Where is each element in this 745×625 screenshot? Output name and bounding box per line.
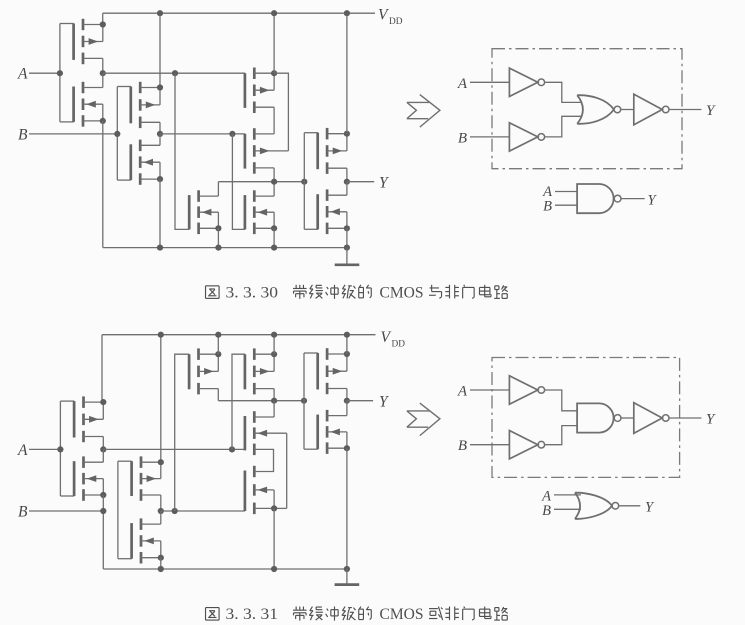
wire Y out of box: [669, 109, 701, 111]
gate bracket VT1'/VT2' (input A inverter) fig31: [60, 401, 74, 496]
transistor VT4 (NMOS, B inverter): [131, 140, 160, 185]
wire VT2 source to ground rail: [102, 121, 104, 248]
wire VT7' substrate down: [286, 433, 288, 508]
equivalence arrow fig30: [407, 95, 440, 128]
node inverter-A output fig31: [100, 446, 106, 452]
wire VT9' drain down: [346, 389, 348, 401]
node output inverter gate node fig31: [301, 398, 307, 404]
wire VT5' source to VDD: [217, 335, 219, 355]
equivalence arrow fig31: [407, 403, 440, 436]
svg-text:B: B: [18, 126, 28, 143]
caption char 非: [445, 285, 459, 299]
wire VT5' drain down: [217, 389, 219, 401]
wire NOR to Y: [619, 505, 641, 507]
svg-text:DD: DD: [389, 17, 403, 27]
wire Y output: [347, 181, 374, 183]
node VT4 source: [157, 176, 163, 182]
svg-text:A: A: [17, 66, 28, 83]
transistor VT9' (PMOS, output inverter) fig31: [318, 348, 347, 394]
node gnd tap 2 fig31: [271, 566, 277, 572]
VDD rail (fig.3.3.30): [103, 12, 375, 14]
caption char 缓: [309, 607, 323, 621]
wire VT3' source to VDD: [160, 335, 162, 463]
node VDD tap 3: [344, 10, 350, 16]
wire input A fig31: [29, 448, 60, 450]
wire ground rail fig31: [103, 568, 347, 570]
wire G1 to G3: [545, 82, 582, 102]
wire B-bar down to VT8 gate: [232, 134, 245, 230]
node VT5' source: [215, 351, 221, 357]
ground fig31: [335, 569, 360, 585]
wire G2 to G3: [545, 116, 582, 137]
caption char 冲: [326, 285, 339, 299]
svg-text:Y: Y: [379, 174, 389, 191]
node VT10 source: [344, 225, 350, 231]
wire B to NOR: [554, 508, 581, 510]
wire B into box fig31: [470, 444, 509, 446]
wire VT7 source to ground: [217, 228, 219, 247]
wire NAND output row fig31: [218, 400, 304, 402]
transistor VT4' (NMOS, B inverter) fig31: [132, 518, 161, 563]
gate bracket VT3'/VT4' (input B inverter) fig31: [118, 461, 132, 559]
wire VT1' drain down: [102, 437, 104, 450]
node NAND output node fig31: [271, 398, 277, 404]
transistor VT3' (PMOS, B inverter) fig31: [132, 456, 161, 500]
wire A-bar row fig31: [103, 448, 245, 450]
node VT5 source: [271, 70, 277, 76]
caption char 级: [342, 607, 356, 621]
svg-text:A: A: [17, 442, 28, 459]
wire VT3' drain down: [160, 495, 162, 511]
wire B-bar up to VT5' gate: [175, 354, 190, 511]
node VDD tap 1: [157, 10, 163, 16]
wire A-bar down to VT7 gate: [175, 73, 189, 229]
wire VT9 drain down: [346, 168, 348, 182]
node VT1' source/VDD: [100, 399, 106, 405]
node gnd tap 3 fig31: [344, 566, 350, 572]
inverter G1': [509, 376, 544, 404]
node VT3' source: [158, 459, 164, 465]
caption char 级: [342, 285, 356, 299]
transistor VT2' (NMOS, A inverter) fig31: [74, 456, 103, 500]
wire VT8' substrate down: [273, 490, 275, 508]
transistor VT1' (PMOS, A inverter) fig31: [74, 396, 103, 442]
wire Y output fig31: [347, 400, 373, 402]
node inverter-B output: [157, 131, 163, 137]
svg-text:3. 3. 30: 3. 3. 30: [226, 285, 279, 302]
caption char 冲: [326, 607, 339, 621]
wire VT7'-VT8' series link: [273, 449, 275, 471]
transistor VT7 (NMOS parallel, NOR): [189, 190, 218, 234]
caption char 门: [463, 607, 474, 621]
transistor VT10 (NMOS, output inverter): [318, 189, 347, 234]
node VDD tap 2 fig31: [215, 332, 221, 338]
node B-bar branch: [229, 131, 235, 137]
svg-text:B: B: [18, 503, 28, 520]
node Y output node fig31: [344, 398, 350, 404]
node VDD tap 2: [271, 10, 277, 16]
caption char 路: [494, 607, 508, 620]
node VT1 source/VDD: [100, 21, 106, 27]
wire VT5-VT6 series link: [273, 107, 275, 134]
wire VT3 drain down: [159, 122, 161, 134]
svg-text:V: V: [381, 329, 392, 346]
node VDD tap 4 fig31: [344, 332, 350, 338]
wire NAND to Y: [621, 198, 645, 200]
dash-dot enclosure fig30: [492, 49, 682, 169]
wire VT7' drain up: [273, 401, 275, 417]
caption char 电: [479, 285, 490, 297]
node A-bar branch: [172, 70, 178, 76]
wire ground rail fig30: [103, 247, 347, 249]
transistor VT7' (NMOS series, NAND) fig31: [245, 411, 287, 455]
node B-bar branch fig31: [172, 508, 178, 514]
node VT4' source: [158, 555, 164, 561]
wire substrate tie VT6: [274, 73, 288, 151]
svg-text:B: B: [458, 438, 467, 454]
wire B into box: [470, 136, 509, 138]
wire VT6 drain down: [273, 168, 275, 182]
wire VT8' source to ground: [273, 508, 275, 569]
wire input B: [29, 133, 117, 135]
node VT9' source: [344, 351, 350, 357]
svg-text:CMOS: CMOS: [380, 606, 424, 623]
wire input A: [29, 72, 60, 74]
node gnd tap 3: [271, 245, 277, 251]
transistor VT5 (PMOS series, NOR): [245, 68, 274, 114]
svg-text:B: B: [542, 503, 551, 519]
caption char 带: [293, 607, 307, 621]
wire input B fig31: [29, 510, 103, 512]
transistor VT1 (PMOS, A inverter): [74, 19, 103, 64]
caption: 图 3.3.31: [206, 608, 220, 621]
wire A to NAND: [555, 191, 578, 193]
node VT6' source: [271, 351, 277, 357]
wire VT2' drain up: [102, 449, 104, 462]
wire VT4 drain up: [159, 134, 161, 145]
inverter G4': [634, 403, 669, 434]
VDD rail (fig.3.3.31): [102, 334, 376, 336]
wire VT7 drain up: [217, 182, 219, 196]
caption char 的: [359, 607, 372, 620]
caption char 电: [479, 607, 490, 619]
node VT8' source: [271, 505, 277, 511]
wire VT6' drain down: [273, 389, 275, 401]
wire VT2' source to ground rail: [102, 495, 104, 569]
svg-text:Y: Y: [379, 393, 389, 410]
caption char 或: [429, 607, 443, 621]
caption char 非: [445, 607, 459, 621]
node A gate junction fig31: [57, 446, 63, 452]
svg-text:3. 3. 31: 3. 3. 31: [226, 606, 279, 623]
node B junction fig31: [100, 508, 106, 514]
wire VT8' source tie: [274, 507, 287, 509]
node inverter-A output: [100, 70, 106, 76]
node output inverter gate node: [301, 179, 307, 185]
wire VT10 drain up: [346, 182, 348, 196]
gate bracket VT3/VT4 (input B inverter): [117, 87, 131, 181]
transistor VT6 (PMOS series, NOR): [245, 128, 289, 174]
inverter G2: [509, 123, 544, 151]
wire VT4' drain up: [160, 511, 162, 524]
wire A into box: [470, 81, 509, 83]
transistor VT8 (NMOS parallel, NOR): [245, 190, 274, 234]
node gnd tap 1: [157, 245, 163, 251]
wire Y out of box fig31: [669, 417, 701, 419]
NOR gate G3: [577, 95, 621, 124]
wire VT9 source to VDD: [346, 13, 348, 134]
wire VT6' source to VDD: [273, 335, 275, 355]
inverter G4: [634, 94, 669, 125]
caption char 路: [494, 285, 508, 298]
wire G2' to G3': [545, 426, 578, 445]
node B gate junction: [114, 131, 120, 137]
caption char 门: [463, 285, 474, 299]
wire B to NAND: [555, 204, 578, 206]
transistor VT5' (PMOS parallel, NAND) fig31: [189, 348, 218, 394]
wire B-bar row fig31: [161, 510, 245, 512]
wire G1' to G3': [545, 390, 578, 411]
wire VT5 source to VDD: [273, 13, 275, 73]
node VT2 source: [100, 118, 106, 124]
caption: 图 3.3.30: [206, 286, 220, 299]
node gnd tap 1 fig31: [158, 566, 164, 572]
svg-text:B: B: [543, 199, 552, 215]
node VDD tap 1 fig31: [158, 332, 164, 338]
svg-text:V: V: [378, 7, 389, 24]
node Y output node: [344, 179, 350, 185]
caption char 带: [293, 285, 307, 299]
node VDD tap 3 fig31: [271, 332, 277, 338]
node A gate junction: [57, 70, 63, 76]
svg-text:CMOS: CMOS: [380, 285, 424, 302]
inverter G2': [509, 431, 544, 459]
transistor VT2 (NMOS, A inverter): [74, 82, 103, 127]
gate bracket VT9/VT10 (output inverter): [304, 133, 318, 230]
caption char 与: [429, 285, 442, 299]
caption char 缓: [309, 285, 323, 299]
wire VT8 drain up: [273, 182, 275, 196]
transistor VT8' (NMOS series, NAND) fig31: [245, 466, 274, 514]
svg-text:A: A: [457, 384, 468, 400]
wire NOR output row: [218, 181, 304, 183]
node VT10' source: [344, 445, 350, 451]
NOR gate: [575, 493, 619, 519]
transistor VT9 (PMOS, output inverter): [318, 128, 347, 174]
wire B-bar row: [160, 133, 245, 135]
wire G3 to G4: [621, 109, 634, 111]
ground: [335, 248, 360, 265]
wire VT8 source to ground: [273, 228, 275, 247]
node A-bar branch fig31: [229, 446, 235, 452]
transistor VT10' (NMOS, output inverter) fig31: [318, 410, 347, 454]
NAND gate: [577, 184, 621, 213]
node VT8 source: [271, 225, 277, 231]
wire G3' to G4': [621, 417, 634, 419]
wire VT4' source to ground: [160, 558, 162, 569]
wire VT3 source to VDD: [159, 13, 161, 87]
wire VT10 source to ground: [346, 228, 348, 247]
wire A-bar up to VT6' gate: [232, 354, 245, 449]
node inverter-B output fig31: [158, 508, 164, 514]
wire VT9' source to VDD: [346, 335, 348, 354]
svg-text:DD: DD: [392, 340, 406, 350]
node VT9 source: [344, 131, 350, 137]
gate bracket VT9'/VT10' (output inverter) fig31: [304, 353, 318, 449]
wire VT1 drain down: [102, 58, 104, 73]
node NOR output node: [271, 179, 277, 185]
wire VT10' source to ground: [346, 448, 348, 569]
transistor VT6' (PMOS parallel, NAND) fig31: [245, 348, 274, 394]
caption char 的: [359, 285, 372, 298]
dash-dot enclosure fig31: [492, 358, 680, 478]
wire VT2 drain up: [102, 73, 104, 87]
node gnd tap 2: [215, 245, 221, 251]
node VT7 source: [215, 225, 221, 231]
node VT2' source: [100, 492, 106, 498]
transistor VT3 (PMOS, B inverter): [131, 82, 160, 128]
gate bracket VT1/VT2 (input A inverter): [60, 24, 74, 122]
wire A-bar row: [103, 72, 245, 74]
node gnd tap 4: [344, 245, 350, 251]
wire VT4 source to ground rail: [159, 179, 161, 248]
svg-text:B: B: [458, 130, 467, 146]
wire A into box fig31: [470, 389, 509, 391]
wire VT10' drain up: [346, 401, 348, 416]
wire A to NOR: [554, 494, 581, 496]
svg-text:A: A: [457, 76, 468, 92]
inverter G1: [509, 68, 544, 96]
node VT3 source: [157, 84, 163, 90]
NAND gate G3': [577, 403, 621, 432]
